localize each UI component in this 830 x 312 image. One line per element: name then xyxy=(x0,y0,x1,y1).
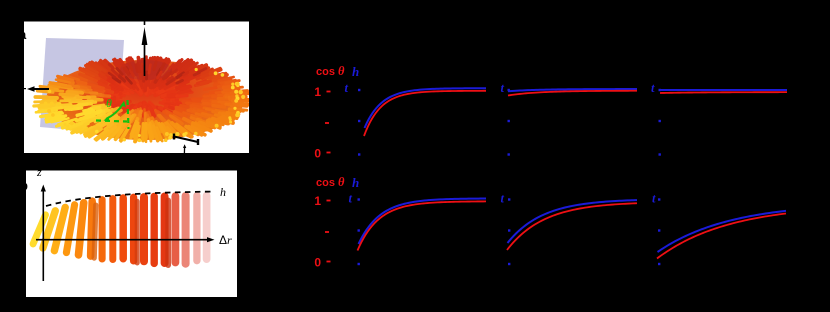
svg-text:h: h xyxy=(220,185,226,199)
svg-text:h: h xyxy=(352,175,359,190)
svg-text:z: z xyxy=(36,165,42,179)
svg-text:t: t xyxy=(501,192,505,206)
svg-text:0: 0 xyxy=(314,146,321,160)
svg-text:t: t xyxy=(501,81,505,95)
svg-text:t: t xyxy=(652,192,656,206)
svg-text:Δr: Δr xyxy=(219,233,232,247)
svg-text:a: a xyxy=(19,27,27,42)
svg-text:b: b xyxy=(20,178,28,193)
svg-text:1: 1 xyxy=(314,194,321,208)
svg-text:t: t xyxy=(651,81,655,95)
svg-text:0: 0 xyxy=(314,255,321,269)
svg-text:1: 1 xyxy=(314,85,321,99)
svg-text:cos θ: cos θ xyxy=(316,64,345,78)
svg-text:t: t xyxy=(349,192,353,206)
svg-text:h: h xyxy=(352,64,359,79)
svg-text:θ: θ xyxy=(106,96,112,110)
svg-text:t: t xyxy=(345,81,349,95)
svg-text:cos θ: cos θ xyxy=(316,175,345,189)
